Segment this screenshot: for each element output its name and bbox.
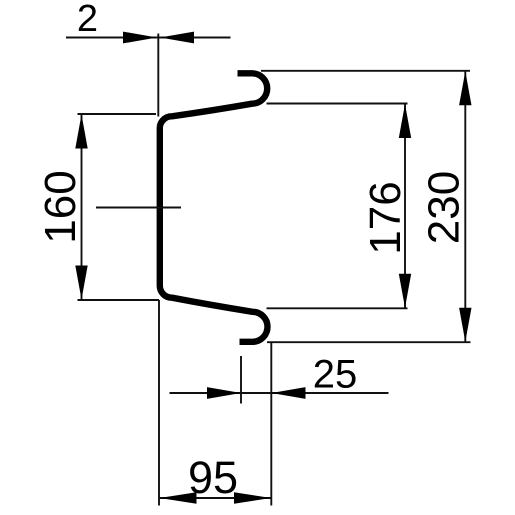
profile outline (C-channel with hemmed lips)	[160, 73, 268, 342]
ext right 95/25	[270, 342, 272, 505]
arrowheads	[75, 32, 471, 504]
dim line 25	[170, 392, 389, 394]
ext top 176	[267, 103, 408, 105]
arrow 230 top (up)	[459, 71, 471, 105]
dim line 160	[81, 114, 83, 300]
ext bottom 160	[78, 299, 160, 301]
svg-text:25: 25	[313, 352, 358, 396]
thin dimension/extension lines	[66, 34, 471, 506]
arrow 25 left (points right)	[207, 387, 241, 399]
ext bottom 230	[267, 341, 471, 343]
arrow 2 left (points right)	[123, 32, 157, 44]
arrow 230 bottom (down)	[459, 308, 471, 342]
arrow 176 bottom (down)	[399, 274, 411, 308]
dim line 95	[159, 497, 271, 499]
ext top 160	[78, 113, 157, 115]
arrow 95 left (points left)	[160, 492, 197, 504]
svg-text:160: 160	[36, 170, 85, 243]
svg-text:176: 176	[361, 181, 410, 254]
arrow 2 right (points left)	[160, 32, 194, 44]
svg-text:2: 2	[77, 0, 98, 40]
dim line 176	[404, 104, 406, 309]
ext top 230	[261, 70, 470, 72]
arrow 160 bottom (down)	[75, 266, 87, 300]
ext bottom 176	[267, 307, 408, 309]
mid leader 160	[96, 207, 181, 209]
dim line 2	[66, 37, 231, 39]
ext line for 2	[157, 34, 159, 117]
arrow 176 top (up)	[399, 104, 411, 138]
arrow 25 right (points left)	[272, 387, 306, 399]
svg-text:95: 95	[188, 452, 238, 503]
arrow 95 right (points right)	[234, 492, 271, 504]
arrow 160 top (up)	[75, 115, 87, 149]
ext left 25	[240, 356, 242, 404]
svg-text:230: 230	[419, 171, 468, 244]
dim line 230	[464, 71, 466, 342]
ext left 95	[158, 300, 160, 506]
